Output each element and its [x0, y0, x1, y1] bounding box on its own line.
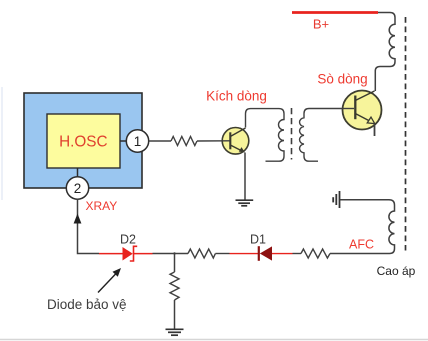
zener diode D2 [123, 246, 138, 261]
wire red to D2 [99, 253, 123, 255]
diode D1 [259, 246, 272, 261]
transistor Q2 (Sò dòng) [343, 91, 382, 130]
label Cao áp [377, 264, 416, 278]
svg-text:Cao áp: Cao áp [377, 264, 416, 278]
resistor R1 [171, 137, 197, 146]
wire Q2 base [343, 108, 354, 110]
inductor L2 (AFC coil) [389, 200, 395, 254]
wire R3 to L2 [330, 253, 390, 255]
wire R1 to Q1 base [197, 140, 230, 142]
transformer T1 primary (left winding) with wire to Q1 collector [246, 109, 285, 162]
label D1 [250, 233, 266, 247]
annotation arrow to D2 [98, 268, 121, 293]
wire D2 red segment [134, 253, 153, 255]
wire Q2 emitter stub [374, 124, 376, 137]
label XRAY [86, 199, 118, 213]
svg-text:Diode bảo vệ: Diode bảo vệ [47, 297, 127, 312]
wire H.OSC to node 2 [77, 168, 79, 177]
label Diode bảo vệ [47, 297, 127, 312]
wire D2 to junction to R2 [153, 253, 189, 255]
transformer T1 secondary (right winding) [300, 109, 343, 162]
label H.OSC [59, 134, 107, 151]
dashed separator (Cao áp) [405, 17, 407, 251]
transformer T1 core [291, 108, 293, 160]
svg-text:AFC: AFC [349, 238, 374, 252]
left faint edge line [1, 87, 3, 200]
svg-text:H.OSC: H.OSC [59, 134, 107, 151]
node 2 [66, 177, 88, 199]
H.OSC outer block (blue) [24, 93, 142, 188]
label AFC [349, 238, 374, 252]
resistor R2 [188, 249, 215, 258]
label Sò dòng [317, 72, 367, 87]
junction node [173, 252, 175, 254]
node 1 [126, 130, 148, 152]
wire node 1 to R1 [149, 140, 171, 142]
ground G2 [166, 329, 184, 335]
wire H.OSC to node 1 [120, 140, 127, 142]
wire D1 to R3 (red then dark) [272, 253, 301, 255]
vertical wire junction to R4 [174, 254, 176, 273]
transistor Q1 (Kích dòng) [222, 128, 249, 155]
ground G3 (left pointing) [333, 191, 339, 208]
svg-text:D1: D1 [250, 233, 266, 247]
label D2 [120, 233, 136, 247]
wire Q1 emitter to ground [244, 153, 246, 200]
wire R2 to D1 (dark then red) [215, 253, 258, 255]
svg-text:2: 2 [74, 181, 82, 196]
wire R4 to ground [174, 300, 176, 329]
resistor R4 [170, 272, 179, 300]
power rail B+ red line [292, 11, 378, 14]
wire node 2 down to bottom rail with up arrow [74, 199, 99, 253]
inductor L1 [375, 13, 395, 92]
svg-text:1: 1 [134, 134, 142, 149]
svg-text:D2: D2 [120, 233, 136, 247]
wire G3 to L2 [340, 199, 389, 201]
svg-text:Kích dòng: Kích dòng [206, 89, 267, 104]
ground G1 [236, 200, 254, 206]
label B+ [313, 16, 329, 31]
H.OSC inner block (yellow) [47, 114, 120, 168]
bottom gray line [0, 339, 428, 341]
label Kích dòng [206, 89, 267, 104]
svg-text:B+: B+ [313, 16, 329, 31]
resistor R3 [301, 249, 330, 258]
svg-text:Sò dòng: Sò dòng [317, 72, 367, 87]
svg-text:XRAY: XRAY [86, 199, 118, 213]
